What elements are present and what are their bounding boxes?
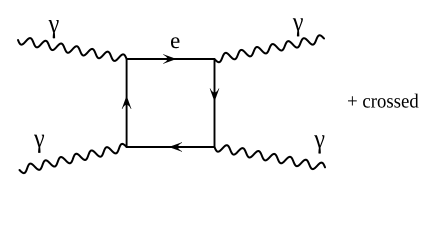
- photon gamma3 wavy line (bottom-left): [20, 144, 127, 173]
- arrow bottom edge (pointing left): [170, 143, 183, 152]
- label gamma4 (bottom-right photon): [314, 135, 324, 153]
- arrow top edge (pointing right): [163, 55, 176, 64]
- photon gamma4 wavy line (bottom-right): [215, 145, 326, 169]
- label e (electron, top edge): [171, 37, 179, 48]
- arrow left edge (pointing up): [122, 96, 131, 109]
- label "+ crossed": [348, 94, 419, 108]
- label gamma2 (top-right photon): [293, 18, 303, 36]
- electron loop box: [127, 59, 215, 147]
- arrow right edge (pointing down): [210, 89, 219, 102]
- label gamma3 (bottom-left photon): [34, 135, 44, 153]
- photon gamma2 wavy line (top-right): [215, 35, 325, 62]
- label gamma1 (top-left photon): [49, 20, 59, 38]
- photon gamma1 wavy line (top-left): [18, 38, 127, 61]
